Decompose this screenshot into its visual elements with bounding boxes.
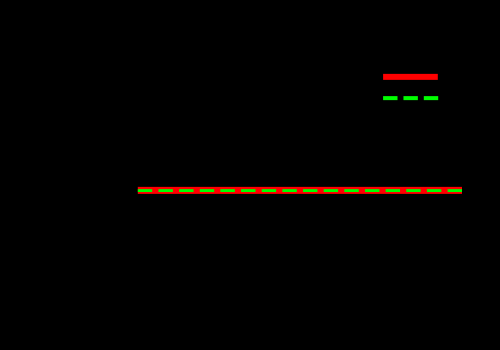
green dashed line (main plot) bbox=[138, 189, 462, 192]
red solid line (main plot) bbox=[138, 187, 462, 194]
legend red solid line sample bbox=[383, 74, 438, 80]
legend green dashed line sample bbox=[383, 96, 438, 100]
